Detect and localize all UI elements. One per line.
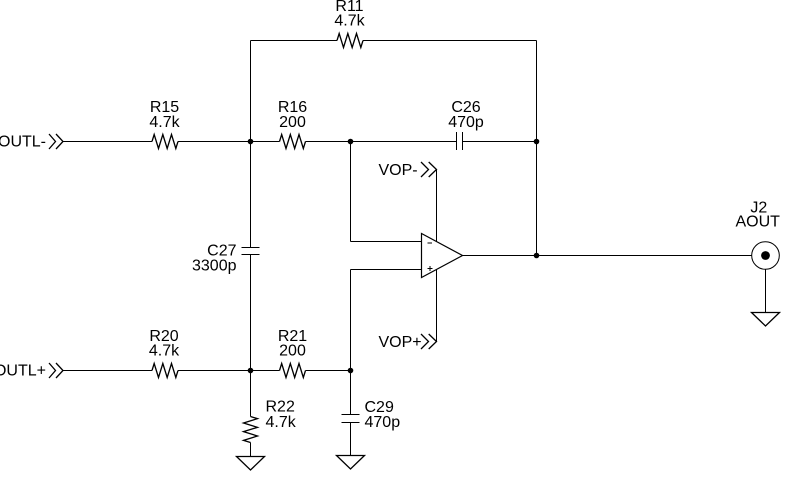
svg-text:3300p: 3300p (192, 257, 237, 274)
svg-text:200: 200 (279, 114, 306, 131)
svg-text:VOP-: VOP- (379, 162, 418, 179)
ground (237, 457, 265, 471)
resistor R22 (244, 417, 258, 443)
svg-text:200: 200 (279, 343, 306, 360)
svg-text:OUTL-: OUTL- (0, 134, 46, 151)
wire (306, 141, 457, 143)
wire (63, 370, 152, 372)
ground (337, 456, 365, 470)
wire (306, 370, 351, 372)
node B junction (348, 139, 354, 145)
svg-text:4.7k: 4.7k (266, 414, 297, 431)
node E junction (348, 368, 354, 374)
svg-text:AOUT: AOUT (735, 213, 780, 230)
svg-text:VOP+: VOP+ (379, 334, 422, 351)
port VOP+ (421, 334, 429, 349)
op-amp U1 (422, 234, 463, 278)
wire (250, 443, 252, 457)
wire (436, 170, 438, 242)
wire (363, 40, 537, 42)
resistor R20 (152, 364, 178, 378)
wire (350, 371, 352, 415)
wire (350, 270, 352, 371)
node A junction (248, 139, 254, 145)
resistor R15 (152, 135, 178, 149)
wire (765, 269, 767, 312)
capacitor C27 (242, 247, 260, 249)
wire (63, 141, 152, 143)
capacitor C29 (342, 414, 360, 416)
wire (436, 270, 438, 342)
node C junction (534, 139, 540, 145)
svg-text:470p: 470p (365, 414, 401, 431)
wire (250, 371, 252, 417)
connector J2 (752, 242, 780, 270)
wire (250, 255, 252, 371)
resistor R21 (280, 364, 306, 378)
port OUTL- (49, 134, 56, 149)
svg-text:470p: 470p (448, 114, 484, 131)
svg-text:4.7k: 4.7k (334, 13, 365, 30)
wire (251, 40, 338, 42)
wire (536, 41, 538, 256)
port OUTL+ (49, 363, 56, 378)
wire (250, 41, 252, 248)
node D junction (248, 368, 254, 374)
svg-text:OUTL+: OUTL+ (0, 363, 46, 380)
ground (752, 313, 780, 327)
wire (463, 141, 537, 143)
resistor R16 (280, 135, 306, 149)
capacitor C26 (456, 132, 458, 150)
wire (350, 142, 352, 242)
svg-text:4.7k: 4.7k (149, 114, 180, 131)
node AOUT junction (534, 253, 540, 259)
resistor R11 (337, 34, 363, 48)
wire (178, 370, 280, 372)
wire (463, 255, 753, 257)
svg-text:4.7k: 4.7k (149, 343, 180, 360)
wire (178, 141, 280, 143)
wire (350, 423, 352, 456)
port VOP- (421, 162, 429, 177)
